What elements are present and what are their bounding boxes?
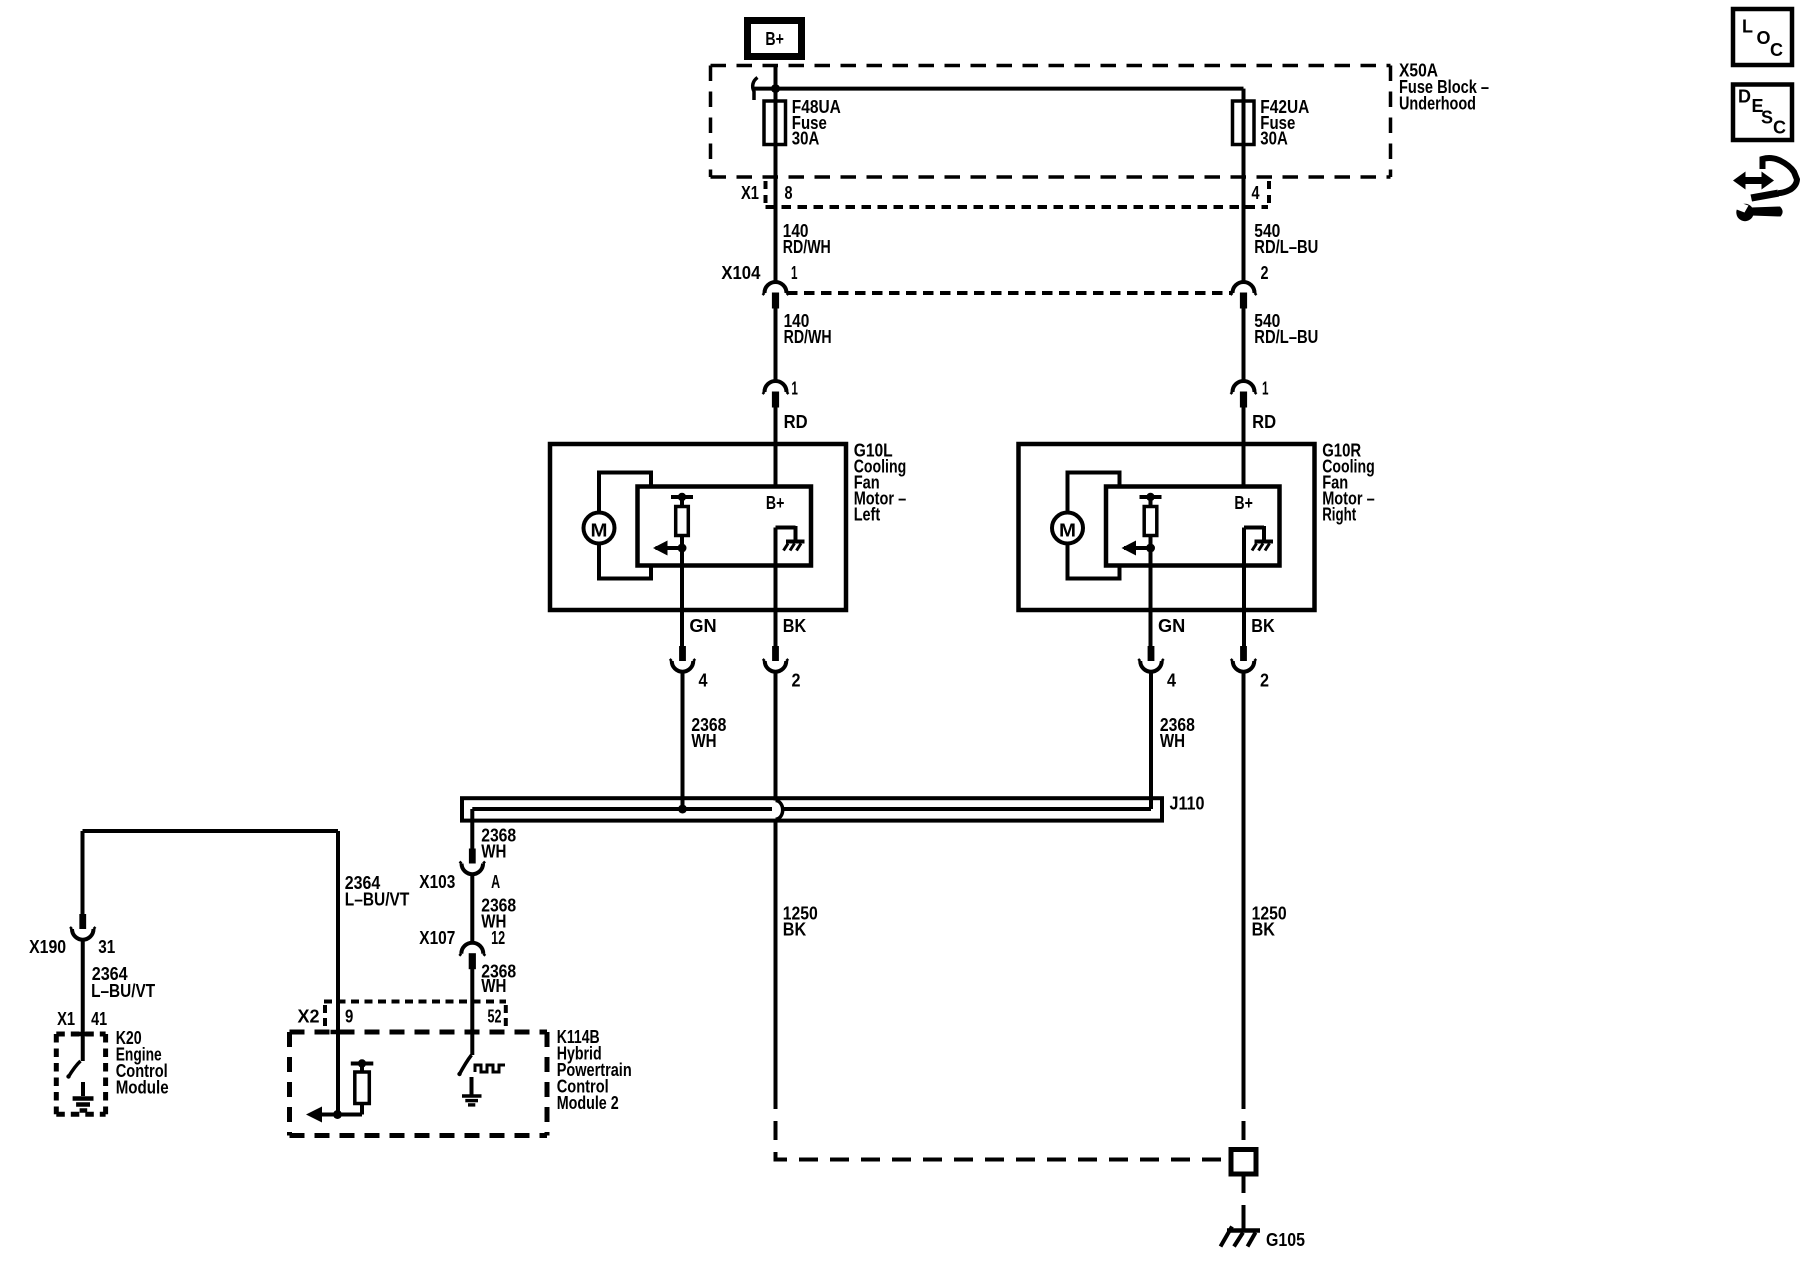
connector G10R pin4 inline [1138, 646, 1164, 672]
wire 1250 BK left dashed run [776, 1090, 1232, 1160]
label wire GN left [689, 616, 716, 636]
label wire 2368 WH top of X103 column [481, 826, 516, 862]
wire battery feed horizontal [754, 87, 1244, 91]
chassis ground G105 [1221, 1222, 1261, 1247]
connector G10R pin1 inline [1231, 381, 1257, 408]
svg-text:RD/WH: RD/WH [784, 327, 832, 347]
label wire 1250 BK left [783, 904, 818, 940]
svg-text:J110: J110 [1170, 794, 1205, 814]
label K20 Engine Control Module [116, 1028, 169, 1098]
label wire 2364 L-BU/VT right [345, 873, 410, 910]
label X190 [29, 937, 66, 957]
icon navigation outline arrow [1751, 158, 1798, 201]
label fuse F48UA 30A [792, 97, 841, 149]
label X50A Fuse Block - Underhood [1399, 61, 1489, 114]
svg-text:X103: X103 [419, 872, 455, 892]
wire GN left to splice J110 [681, 672, 685, 809]
wire hook at battery feed branch [753, 78, 758, 101]
fuse F48UA [764, 101, 786, 145]
switch blade inside K20 [66, 1061, 80, 1079]
svg-text:1: 1 [1262, 379, 1269, 399]
svg-text:1: 1 [791, 379, 798, 399]
wire BK inside G10R [1242, 528, 1246, 647]
wire BK left hop over splice [776, 801, 783, 820]
splice node box G105 run [1231, 1150, 1256, 1175]
svg-text:C: C [1770, 40, 1783, 60]
svg-text:Left: Left [854, 505, 881, 525]
wire battery feed to fuse F42UA [1242, 89, 1246, 101]
label X1 [741, 183, 759, 203]
pin 4 of G10L connector [699, 671, 708, 691]
module K114B dashed box [290, 1032, 548, 1136]
connector X104 pin2 inline [1231, 282, 1257, 309]
svg-text:RD/L–BU: RD/L–BU [1254, 327, 1318, 347]
label wire RD right [1252, 412, 1276, 432]
svg-text:30A: 30A [1260, 129, 1288, 149]
svg-text:Right: Right [1322, 505, 1356, 525]
label wire BK right [1251, 616, 1274, 636]
label G105 [1266, 1230, 1305, 1250]
wire X190 to K20 [81, 940, 85, 1061]
label wire 2368 WH middle [481, 896, 516, 932]
internal PTC element K114B [475, 1065, 505, 1072]
label B+ inside G10R [1234, 493, 1253, 513]
svg-text:X1: X1 [57, 1009, 75, 1029]
label J110 [1170, 794, 1205, 814]
svg-text:BK: BK [1251, 616, 1274, 636]
svg-text:12: 12 [491, 928, 505, 948]
connector G10R pin2 inline [1231, 646, 1257, 672]
fan control module inner box G10R [1106, 487, 1280, 566]
svg-text:WH: WH [691, 731, 716, 751]
switch blade inside K114B [457, 1055, 471, 1076]
svg-text:RD: RD [1252, 412, 1276, 432]
internal sensor bar G10L [671, 493, 693, 507]
svg-text:2: 2 [1260, 671, 1269, 691]
wire BK right to dashed section [1242, 672, 1246, 1090]
internal chassis ground G10L [784, 542, 805, 551]
label G10R [1322, 441, 1375, 525]
svg-text:WH: WH [1160, 731, 1185, 751]
label wire 540 RD/L-BU lower [1254, 311, 1318, 347]
wire X103 to X107 [470, 874, 474, 942]
svg-text:X190: X190 [29, 937, 66, 957]
svg-text:M: M [1059, 521, 1076, 541]
wire BK left to dashed section [774, 819, 778, 1090]
svg-text:2: 2 [1261, 263, 1269, 283]
svg-text:BK: BK [1252, 920, 1275, 940]
svg-text:L–BU/VT: L–BU/VT [345, 890, 410, 910]
wire X104 pin1 to motor connector [774, 308, 778, 381]
label wire 140 RD/WH upper [783, 221, 831, 257]
label wire 2364 L-BU/VT left [91, 964, 155, 1001]
terminal tick K114B pin9 [331, 1030, 345, 1035]
svg-text:41: 41 [91, 1009, 107, 1029]
svg-text:BK: BK [783, 616, 806, 636]
wire GN right to splice J110 [1149, 672, 1153, 809]
svg-text:52: 52 [488, 1007, 502, 1027]
svg-text:L–BU/VT: L–BU/VT [91, 981, 155, 1001]
fan control module inner box G10L [638, 487, 812, 566]
label wire BK left [783, 616, 806, 636]
internal arrow output K114B [306, 1107, 362, 1123]
pin 9 of X2 [345, 1007, 353, 1027]
svg-text:G105: G105 [1266, 1230, 1305, 1250]
pin 1 of X104 [791, 263, 798, 283]
label wire 2368 WH left [691, 715, 726, 751]
svg-text:S: S [1761, 108, 1773, 128]
internal speed control arrow G10R [1122, 536, 1156, 556]
svg-text:Underhood: Underhood [1399, 94, 1476, 114]
pin 31 of X190 [98, 937, 115, 957]
terminal tick K114B pin52 [465, 1030, 479, 1035]
icon navigation double arrow [1733, 172, 1774, 190]
label X104 [721, 263, 760, 283]
wire GN inside G10L [680, 548, 684, 646]
connector X104 pin1 inline [763, 282, 789, 309]
svg-text:4: 4 [1252, 183, 1260, 203]
connector X1 band [766, 181, 1270, 207]
connector X2 band [324, 1002, 506, 1027]
svg-text:GN: GN [1158, 616, 1185, 636]
wire GN inside G10R [1149, 548, 1153, 646]
label G10L [854, 441, 907, 525]
pin 2 of G10R connector [1260, 671, 1269, 691]
svg-text:X104: X104 [721, 263, 760, 283]
wire X107 to K114B pin52 [470, 968, 474, 1055]
svg-text:9: 9 [345, 1007, 353, 1027]
earth ground inside K114B [462, 1077, 482, 1105]
motor M circle G10R [1052, 513, 1083, 544]
svg-text:M: M [591, 521, 608, 541]
label K114B Hybrid Powertrain Control Module 2 [557, 1027, 632, 1113]
pin 2 of X104 [1261, 263, 1269, 283]
label wire GN right [1158, 616, 1185, 636]
wire motor loop top G10L [599, 473, 651, 513]
wire X104 pin2 to motor connector [1242, 308, 1246, 381]
wire ECM feed horizontal [83, 831, 339, 1001]
svg-text:1: 1 [791, 263, 798, 283]
pin 1 of G10L connector [791, 379, 798, 399]
wire dashed to ground G105 [1242, 1174, 1246, 1226]
internal ground hook G10L [776, 526, 796, 542]
pin 12 of X107 [491, 928, 505, 948]
pin 2 of G10L connector [792, 671, 801, 691]
label X103 [419, 872, 455, 892]
wire 1250 BK right dashed upper [1242, 1090, 1246, 1150]
svg-text:X107: X107 [419, 928, 455, 948]
svg-text:Module 2: Module 2 [557, 1093, 619, 1113]
svg-text:X1: X1 [741, 183, 759, 203]
label X107 [419, 928, 455, 948]
splice J110 bar outline [462, 798, 1162, 820]
connector X104 dashed link [787, 291, 1232, 295]
wire RD to G10R [1242, 407, 1246, 487]
svg-text:RD/L–BU: RD/L–BU [1254, 237, 1318, 257]
terminal tick K20 pin41 [76, 1032, 90, 1037]
pin 4 of X1 [1252, 183, 1260, 203]
wire fuse F42UA to X104 pin2 [1242, 145, 1246, 282]
label wire 140 RD/WH lower [784, 311, 832, 347]
svg-text:WH: WH [481, 842, 506, 862]
connector X107 inline [459, 943, 485, 969]
svg-text:C: C [1773, 118, 1786, 138]
svg-text:X2: X2 [298, 1007, 320, 1027]
svg-text:A: A [491, 872, 500, 892]
svg-text:RD: RD [784, 412, 808, 432]
pin 8 of X1 [785, 183, 793, 203]
svg-text:B+: B+ [766, 493, 785, 513]
pin 1 of G10R connector [1262, 379, 1269, 399]
wire motor loop bottom G10L [599, 545, 651, 579]
fuse F42UA [1233, 101, 1255, 145]
internal chassis ground G10R [1252, 542, 1273, 551]
junction dot GN left at J110 [678, 805, 687, 814]
svg-text:31: 31 [98, 937, 115, 957]
cooling fan motor G10L outer box [550, 444, 846, 610]
icon LOC box [1733, 9, 1792, 65]
internal ground hook G10R [1244, 526, 1264, 542]
wire fuse F48UA to X104 pin1 [774, 145, 778, 282]
internal resistor K114B [351, 1059, 374, 1114]
fuse block X50A dashed outline [711, 66, 1391, 178]
svg-text:2: 2 [792, 671, 801, 691]
label wire 1250 BK right [1252, 904, 1287, 940]
earth ground inside K20 [73, 1082, 94, 1111]
label wire RD left [784, 412, 808, 432]
wire B+ box to fuse F48UA [774, 64, 778, 101]
svg-text:8: 8 [785, 183, 793, 203]
pin 41 of K20 [91, 1009, 107, 1029]
svg-text:GN: GN [689, 616, 716, 636]
internal sensor bar G10R [1140, 493, 1162, 507]
internal resistor G10R [1144, 507, 1157, 536]
svg-text:4: 4 [1167, 671, 1176, 691]
wire motor loop top G10R [1068, 473, 1120, 513]
pin 52 of X2 [488, 1007, 502, 1027]
connector X190 inline [70, 914, 96, 940]
svg-text:O: O [1757, 28, 1771, 48]
label wire 540 RD/L-BU upper [1254, 221, 1318, 257]
wire splice J110 to X103 [470, 809, 474, 849]
icon wrench [1734, 202, 1783, 222]
label fuse F42UA 30A [1260, 97, 1309, 149]
connector G10L pin1 inline [763, 381, 789, 408]
internal speed control arrow G10L [653, 536, 687, 556]
wire motor loop bottom G10R [1068, 545, 1120, 579]
wire BK left upper segment [774, 672, 778, 801]
icon DESC box [1733, 85, 1792, 141]
svg-text:BK: BK [783, 920, 806, 940]
label wire 2368 WH right [1160, 715, 1195, 751]
svg-text:WH: WH [481, 976, 506, 996]
connector G10L pin4 inline [670, 646, 696, 672]
pin 4 of G10R connector [1167, 671, 1176, 691]
connector G10L pin2 inline [763, 646, 789, 672]
splice J110 conductor [472, 807, 1151, 811]
svg-text:D: D [1738, 87, 1751, 107]
module K20 dashed box [56, 1034, 105, 1114]
pin A of X103 [491, 872, 500, 892]
wire RD to G10L [774, 407, 778, 487]
motor M circle G10L [584, 513, 615, 544]
junction dot battery feed [771, 84, 780, 93]
power symbol B+ box [748, 21, 802, 57]
connector X103 inline [460, 849, 486, 875]
svg-text:B+: B+ [765, 29, 784, 49]
label X1 of K20 [57, 1009, 75, 1029]
svg-text:Module: Module [116, 1078, 169, 1098]
internal resistor G10L [676, 507, 689, 536]
svg-text:30A: 30A [792, 129, 820, 149]
label B+ inside G10L [766, 493, 785, 513]
svg-text:RD/WH: RD/WH [783, 237, 831, 257]
wire BK inside G10L [774, 528, 778, 647]
label wire 2368 WH bottom [481, 962, 516, 997]
svg-text:4: 4 [699, 671, 708, 691]
svg-text:B+: B+ [1234, 493, 1253, 513]
wire into K114B pin9 [336, 1001, 340, 1115]
cooling fan motor G10R outer box [1019, 444, 1315, 610]
svg-text:L: L [1742, 17, 1753, 37]
label X2 [298, 1007, 320, 1027]
